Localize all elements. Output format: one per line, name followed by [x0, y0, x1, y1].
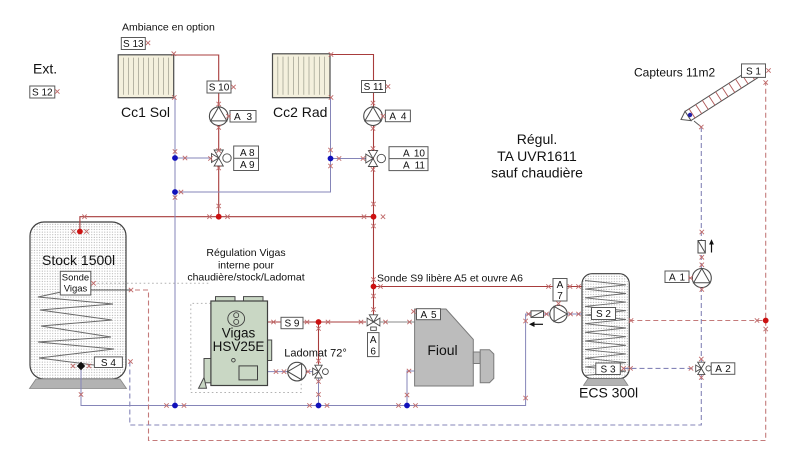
pump A3 (Cc1)	[209, 107, 228, 126]
Fioul oil boiler	[415, 309, 494, 386]
wire: hot supply manifold to Stock tank	[80, 217, 374, 232]
wire: Cc2 return jog to Cc1 return	[175, 98, 331, 193]
sensor S3 (ECS bottom)	[596, 363, 621, 375]
svg-text:Régulation Vigas: Régulation Vigas	[206, 247, 285, 259]
stock tank base	[30, 379, 127, 389]
svg-text:5: 5	[431, 310, 437, 321]
wire: mixer 2 left port	[331, 158, 370, 160]
svg-text:A: A	[370, 335, 377, 346]
stock bottom junction diamond	[77, 362, 85, 371]
radiator Cc1 Sol	[118, 55, 174, 98]
svg-text:HSV25E: HSV25E	[213, 339, 265, 354]
sensor S10 (Cc1 flow)	[207, 81, 231, 93]
svg-text:A: A	[389, 112, 396, 123]
svg-text:S 10: S 10	[209, 83, 230, 94]
svg-text:Stock 1500l: Stock 1500l	[42, 252, 115, 268]
svg-text:Ladomat 72°: Ladomat 72°	[284, 348, 347, 360]
svg-text:9: 9	[249, 160, 255, 171]
svg-text:1: 1	[679, 272, 685, 283]
svg-text:S 11: S 11	[364, 82, 384, 93]
svg-text:TA UVR1611: TA UVR1611	[497, 148, 577, 164]
wire: Fioul boiler return	[407, 371, 415, 406]
valve A6 (boiler changeover)	[367, 318, 373, 326]
pump A1 (solar)	[692, 269, 711, 288]
wire: Ladomat valve down to manifold	[318, 379, 320, 406]
svg-text:8: 8	[249, 148, 255, 159]
wire: boiler flow to ECS (Sonde S9 line)	[374, 286, 582, 288]
wire: Cc1 supply from radiator to pump/valve	[174, 55, 219, 217]
wire: Vigas to Ladomat pump	[268, 371, 314, 373]
svg-text:Cc2 Rad: Cc2 Rad	[273, 104, 327, 120]
buffer tank Stock 1500l	[30, 222, 126, 379]
output A8/A9 box	[234, 146, 259, 171]
svg-text:A: A	[403, 160, 410, 171]
svg-text:S 13: S 13	[123, 39, 144, 50]
stock tank heat-exchanger coil	[38, 292, 114, 365]
svg-text:A: A	[240, 148, 247, 159]
dashed wire: solar flow loop to Sonde Vigas	[135, 83, 766, 441]
dotted boundary of Vigas internal regulation group	[191, 303, 301, 392]
mixing valve A10/A11 (Cc2)	[368, 151, 377, 159]
svg-text:Fioul: Fioul	[427, 342, 457, 358]
output A5 box	[417, 309, 441, 320]
sensor S9 (boiler flow)	[281, 317, 303, 328]
dotted sensor wire Sonde Vigas to boiler	[98, 282, 211, 284]
svg-text:Sonde S9 libère A5 et ouvre A6: Sonde S9 libère A5 et ouvre A6	[377, 272, 523, 284]
sensor S13 (room)	[121, 38, 145, 50]
sensor S1 (collector)	[742, 64, 766, 78]
DHW tank ECS 300l	[582, 274, 629, 379]
svg-text:S 9: S 9	[284, 319, 299, 330]
sensor S11 (Cc2 flow)	[362, 81, 386, 93]
output A1 box	[665, 271, 689, 283]
output A3 box	[230, 111, 256, 123]
junction dots (hot side)	[77, 229, 83, 235]
ECS tank base	[584, 379, 629, 386]
svg-text:Capteurs 11m2: Capteurs 11m2	[634, 66, 715, 80]
Ladomat thermic valve	[315, 365, 322, 371]
svg-text:ECS 300l: ECS 300l	[579, 385, 638, 401]
dashed wire: solar return loop down to S4	[130, 127, 702, 425]
output A4 box	[385, 110, 410, 122]
svg-text:Vigas: Vigas	[64, 283, 88, 294]
wire: bottom return manifold to ECS loading pump	[81, 314, 582, 406]
pump A7 (ECS loading)	[550, 305, 567, 322]
svg-text:11: 11	[415, 160, 426, 171]
sensor box Sonde Vigas	[60, 271, 91, 295]
mixing valve A8/A9 (Cc1)	[214, 150, 223, 158]
svg-text:Cc1 Sol: Cc1 Sol	[121, 104, 170, 120]
output A2 box	[711, 363, 735, 375]
dashed wire: ECS S2 to solar loop	[629, 320, 765, 322]
wire: collector outlet stub	[694, 121, 701, 127]
svg-text:Régul.: Régul.	[517, 131, 557, 147]
svg-text:A: A	[557, 280, 564, 291]
svg-text:3: 3	[246, 112, 252, 123]
output A7 box	[553, 279, 567, 302]
svg-text:Ext.: Ext.	[33, 61, 57, 77]
svg-text:A: A	[403, 148, 410, 159]
flow direction arrow (left)	[529, 322, 543, 327]
svg-text:chaudière/stock/Ladomat: chaudière/stock/Ladomat	[187, 272, 304, 284]
output A10/A11 box	[389, 147, 428, 171]
check valve (solar line)	[698, 241, 705, 254]
wire: mixer 1 left port	[175, 157, 214, 159]
svg-text:7: 7	[557, 291, 563, 302]
solar collector Capteurs 11m2	[681, 68, 758, 120]
ECS tank heat-exchanger coil	[585, 281, 626, 376]
svg-text:interne pour: interne pour	[218, 259, 275, 271]
wire: Vigas boiler flow via S9	[268, 321, 367, 323]
radiator Cc2 Rad	[273, 54, 331, 98]
flow direction arrow (up)	[709, 239, 714, 252]
svg-text:S 2: S 2	[596, 309, 611, 320]
svg-text:10: 10	[414, 148, 426, 159]
sensor S2 (ECS middle)	[592, 308, 616, 320]
pump Ladomat	[288, 362, 307, 381]
check valve (ECS loading line)	[531, 311, 544, 318]
svg-text:A: A	[715, 364, 722, 375]
svg-text:Ambiance en option: Ambiance en option	[122, 22, 215, 34]
svg-text:A: A	[421, 310, 428, 321]
svg-text:2: 2	[725, 364, 731, 375]
svg-text:A: A	[240, 160, 247, 171]
svg-text:A: A	[669, 272, 676, 283]
svg-text:S 12: S 12	[32, 88, 53, 99]
wire: Cc1 return down to bottom manifold	[174, 98, 176, 406]
svg-text:6: 6	[370, 346, 376, 357]
svg-text:S 4: S 4	[101, 358, 116, 369]
wire: valve A6 to Fioul boiler	[381, 321, 415, 323]
sensor S4 (stock bottom)	[94, 357, 122, 368]
dashed wire: ECS S3 to valve A2	[624, 367, 695, 369]
svg-text:A: A	[234, 112, 241, 123]
output A6 box	[368, 333, 380, 357]
wire: drop to Ladomat valve	[318, 322, 320, 365]
Vigas HSV25E wood boiler	[199, 297, 272, 389]
pipe connection ticks	[146, 41, 150, 45]
svg-text:4: 4	[401, 112, 407, 123]
sensor S12 (outdoor)	[30, 86, 55, 98]
pump A4 (Cc2)	[364, 107, 383, 126]
junction dots (return side)	[172, 155, 178, 161]
wire: Cc2 supply drop to boiler manifold	[331, 55, 374, 315]
svg-text:Sonde: Sonde	[62, 273, 89, 284]
wire: Sonde Vigas sensor lead	[91, 289, 130, 291]
svg-text:S 1: S 1	[746, 66, 761, 77]
svg-text:sauf chaudière: sauf chaudière	[491, 165, 583, 181]
svg-text:S 3: S 3	[601, 364, 616, 375]
valve A2 (solar return)	[698, 362, 705, 368]
